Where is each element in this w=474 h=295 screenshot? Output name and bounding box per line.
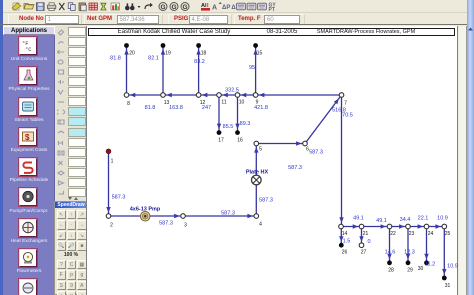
icon copy	[68, 3, 75, 11]
palette scroll arrows	[66, 196, 80, 201]
svg-text:1: 1	[111, 159, 114, 165]
svg-text:31: 31	[445, 283, 451, 289]
svg-text:12: 12	[200, 100, 206, 106]
tool row 12	[68, 138, 86, 147]
svg-text:19: 19	[165, 51, 171, 57]
pipe riser 13-19	[161, 46, 165, 95]
tool row 14	[68, 158, 86, 167]
speeddraw button r4c0	[57, 260, 67, 270]
svg-text:49.1: 49.1	[376, 218, 387, 224]
icon find	[125, 3, 141, 10]
icon open	[24, 4, 34, 10]
svg-text:8: 8	[127, 101, 130, 107]
svg-text:421.8: 421.8	[254, 105, 268, 111]
tool row 16	[68, 178, 86, 187]
node 8	[124, 93, 129, 98]
right window frame / scrollbar strip	[467, 0, 474, 295]
svg-text:2: 2	[110, 223, 113, 229]
speeddraw panel	[54, 201, 88, 295]
sidebar button Pipeline Schedule	[19, 158, 37, 176]
pipe drop 14-26	[339, 227, 343, 246]
pipe 2-3 through pump	[109, 214, 184, 218]
zoom percent label	[55, 252, 87, 258]
icon undo	[145, 3, 153, 9]
input net gpm	[117, 15, 159, 24]
node 22	[387, 224, 392, 229]
speeddraw button r4c2	[77, 260, 87, 270]
svg-text:20: 20	[129, 51, 135, 57]
svg-text:16: 16	[237, 138, 243, 144]
svg-text:22.1: 22.1	[418, 216, 429, 222]
pipe 6-7 diagonal	[305, 95, 342, 144]
tool row 11	[68, 128, 86, 137]
speeddraw button r3c0	[57, 241, 67, 251]
project text	[306, 29, 426, 36]
tool row 5	[68, 67, 86, 76]
sidebar button Flowmeters	[19, 249, 37, 267]
node 20 (demand)	[124, 43, 129, 48]
svg-text:34.4: 34.4	[400, 217, 411, 223]
pipe drop 21-27	[359, 227, 363, 246]
pump 4x6-13 Pmp	[140, 211, 150, 221]
svg-text:4: 4	[259, 222, 262, 228]
node 13	[161, 93, 166, 98]
input psig	[189, 15, 228, 24]
node 18 (demand)	[196, 43, 201, 48]
pipe 3-4	[183, 214, 256, 218]
icon G3	[181, 3, 189, 11]
speeddraw button r1c0	[57, 220, 67, 230]
heat exchanger Plate HX	[251, 175, 261, 185]
tool row 8	[68, 97, 86, 106]
svg-text:17: 17	[218, 138, 224, 144]
node 24	[424, 224, 429, 229]
icon save	[37, 3, 45, 11]
svg-text:10.9: 10.9	[437, 216, 448, 222]
svg-text:14: 14	[342, 231, 348, 237]
node 4	[254, 214, 259, 219]
icon tape2	[247, 3, 256, 10]
speeddraw button r7c0	[57, 291, 67, 295]
node 5	[254, 141, 259, 146]
svg-text:49.1: 49.1	[353, 216, 364, 222]
svg-text:332.5: 332.5	[225, 88, 239, 94]
node 16 (demand)	[235, 130, 240, 135]
pipe manifold 14-21-22-23-24-25	[341, 224, 444, 228]
icon chart	[111, 3, 119, 10]
svg-text:587.3: 587.3	[159, 221, 173, 227]
pipe riser 8-20	[124, 46, 128, 95]
label Net GPM	[87, 14, 112, 25]
speeddraw button r6c0	[57, 281, 67, 291]
svg-text:6: 6	[306, 147, 309, 153]
svg-text:15: 15	[257, 51, 263, 57]
icon hourglass	[101, 3, 107, 10]
label PSIG	[174, 14, 188, 25]
svg-text:81.8: 81.8	[145, 105, 156, 111]
node 12	[196, 93, 201, 98]
gap strip right of canvas	[459, 26, 467, 295]
pipe riser 12-18	[196, 46, 200, 95]
svg-text:85.5: 85.5	[223, 124, 234, 130]
svg-text:27: 27	[361, 250, 367, 256]
svg-text:0: 0	[367, 239, 370, 245]
svg-text:587.3: 587.3	[288, 165, 302, 171]
svg-text:5: 5	[259, 147, 262, 153]
sidebar button Equipment Costs	[19, 128, 37, 146]
sidebar button Unit Conversions	[19, 37, 37, 55]
svg-text:24: 24	[428, 231, 434, 237]
pipe supply 1-2	[106, 151, 110, 216]
icon print	[47, 3, 55, 11]
tool palette background	[55, 26, 86, 295]
pipe drop 25-31	[442, 227, 446, 279]
svg-text:12.3: 12.3	[404, 250, 415, 256]
pipe drop 23-29	[406, 227, 410, 263]
node 31 (demand)	[442, 276, 447, 281]
sidebar button Heat Exchangers	[19, 219, 37, 237]
svg-text:26: 26	[342, 250, 348, 256]
tool row 15	[68, 168, 86, 177]
icon A-caret	[212, 2, 222, 12]
tool row 3	[68, 47, 86, 56]
applications panel header	[3, 26, 55, 36]
speeddraw button r2c2	[77, 231, 87, 241]
tool row 7	[68, 87, 86, 96]
icon AP	[222, 5, 230, 11]
node 28 (demand)	[387, 260, 392, 265]
svg-text:30: 30	[418, 266, 424, 272]
svg-text:89.3: 89.3	[240, 121, 251, 127]
flow arrows on header	[130, 93, 265, 97]
pipe drop 22-28	[387, 227, 391, 263]
label Temp F	[238, 14, 261, 25]
icon G1	[159, 3, 167, 11]
scrollbar gray edge line	[466, 26, 467, 295]
sidebar button Steam Tables	[19, 98, 37, 116]
tool row 4	[68, 57, 86, 66]
sidebar button Physical Properties	[19, 67, 37, 85]
svg-text:81.8: 81.8	[110, 56, 121, 62]
node 10	[235, 93, 240, 98]
svg-text:10: 10	[239, 100, 245, 106]
svg-text:1.5: 1.5	[343, 239, 351, 245]
pipe 5-6	[256, 141, 305, 145]
icon cut	[59, 3, 64, 10]
tool row 17	[68, 188, 86, 197]
speeddraw button r7c1	[67, 291, 77, 295]
node 11	[217, 93, 222, 98]
window left border strip	[0, 0, 3, 295]
svg-text:4x6-13 Pmp: 4x6-13 Pmp	[130, 207, 161, 213]
speeddraw button r3c1	[67, 241, 77, 251]
tool row 2	[68, 37, 86, 46]
pipe 7-14	[339, 95, 343, 227]
speeddraw button r0c2	[77, 210, 87, 220]
svg-text:10.9: 10.9	[447, 263, 458, 269]
speeddraw button r1c2	[77, 220, 87, 230]
svg-text:22: 22	[390, 231, 396, 237]
tool row 13	[68, 148, 86, 157]
icon ALL	[201, 3, 210, 11]
pipe main header 8-13-12-11-10-9-7	[127, 94, 342, 96]
node 30 (demand)	[424, 260, 429, 265]
field row background	[3, 13, 474, 25]
svg-text:11: 11	[221, 100, 226, 106]
svg-text:14.6: 14.6	[385, 250, 396, 256]
node 3	[181, 214, 186, 219]
speeddraw button r2c0	[57, 231, 67, 241]
node 27	[359, 243, 364, 248]
pipe drop 11-17	[217, 95, 221, 133]
speeddraw button r6c2	[77, 281, 87, 291]
tool row 9	[68, 107, 86, 116]
node 19 (demand)	[161, 43, 166, 48]
icon paste	[79, 2, 86, 11]
input node number	[45, 15, 80, 24]
speeddraw button r5c1	[67, 270, 77, 280]
node 15 (demand)	[253, 43, 258, 48]
svg-text:82.1: 82.1	[148, 56, 159, 62]
speeddraw button r4c1	[67, 260, 77, 270]
svg-text:587.3: 587.3	[259, 198, 273, 204]
icon GYPT	[269, 2, 277, 13]
svg-text:18: 18	[201, 51, 207, 57]
svg-text:28: 28	[388, 268, 394, 274]
svg-text:23: 23	[409, 231, 415, 237]
node 26 (demand)	[339, 243, 344, 248]
icon new	[12, 3, 21, 10]
pipe drop 10-16	[235, 95, 239, 133]
applications panel body	[3, 35, 55, 295]
svg-text:29: 29	[407, 268, 413, 274]
tool row 6	[68, 77, 86, 86]
toolbar icons	[0, 0, 290, 13]
node 23	[406, 224, 411, 229]
icon table	[89, 3, 97, 10]
speeddraw button r7c2	[77, 291, 87, 295]
svg-text:Plate HX: Plate HX	[246, 170, 269, 176]
node 17 (demand)	[217, 130, 222, 135]
svg-text:9: 9	[256, 100, 259, 106]
canvas page	[86, 26, 458, 295]
speeddraw button r6c1	[67, 281, 77, 291]
speeddraw button r0c0	[57, 210, 67, 220]
node 1 (supply)	[106, 149, 111, 154]
speeddraw title bar	[55, 202, 87, 209]
svg-text:13: 13	[164, 100, 170, 106]
node 14	[339, 224, 344, 229]
input temp	[264, 15, 300, 24]
node 2	[106, 214, 111, 219]
date text	[254, 29, 310, 37]
icon G2	[170, 3, 178, 11]
icon tape1	[237, 3, 246, 10]
node 9	[253, 93, 258, 98]
pipe 4-5 through HX	[254, 144, 258, 217]
pipe riser 9-15	[253, 46, 257, 95]
tool row 1	[68, 27, 86, 36]
toolbar row background	[3, 0, 474, 13]
svg-text:95: 95	[249, 65, 255, 71]
svg-text:7: 7	[344, 101, 347, 107]
title text	[104, 29, 244, 37]
speeddraw button r2c1	[67, 231, 77, 241]
speeddraw button r3c2	[77, 241, 87, 251]
svg-text:83.2: 83.2	[194, 59, 205, 65]
node 29 (demand)	[406, 260, 411, 265]
group panels	[8, 14, 83, 25]
speeddraw button r0c1	[67, 210, 77, 220]
icon AT	[231, 5, 239, 11]
label Node No	[19, 14, 44, 25]
svg-text:70.5: 70.5	[342, 113, 353, 119]
node 25	[442, 224, 447, 229]
node 21	[359, 224, 364, 229]
scrollbar up arrow	[467, 26, 474, 32]
icon tape3	[258, 3, 267, 10]
node 7	[339, 93, 344, 98]
sidebar button Pump/Fan/Compr.	[19, 188, 37, 206]
separator line under field row	[0, 24, 474, 25]
sidebar button (cut)	[19, 279, 37, 295]
svg-text:11.2: 11.2	[425, 261, 435, 267]
speeddraw button r1c1	[67, 220, 77, 230]
speeddraw button r5c0	[57, 270, 67, 280]
tool row 10	[68, 117, 86, 126]
svg-text:587.3: 587.3	[309, 150, 323, 156]
svg-text:163.8: 163.8	[169, 105, 183, 111]
pipe drop 24-30	[424, 227, 428, 263]
svg-text:587.3: 587.3	[221, 211, 235, 217]
node 6	[303, 141, 308, 146]
speeddraw button r5c2	[77, 270, 87, 280]
drawing title block	[88, 28, 455, 37]
svg-text:3: 3	[184, 223, 187, 229]
svg-text:587.3: 587.3	[112, 195, 126, 201]
svg-text:21: 21	[363, 231, 369, 237]
svg-text:25: 25	[445, 231, 451, 237]
